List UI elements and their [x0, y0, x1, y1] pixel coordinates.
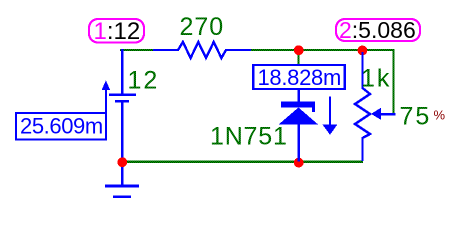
wire node1 stub to ammeter box — [297, 50, 299, 65]
node label box 1 — [89, 18, 144, 45]
node dot top left junction — [294, 45, 304, 55]
battery current arrow — [102, 80, 110, 113]
potentiometer wiper arrow — [371, 108, 396, 120]
svg-text:18.828m: 18.828m — [258, 65, 342, 90]
wire top rail mid (resistor to pot corner) — [251, 49, 395, 51]
zener diode D1 — [279, 89, 319, 162]
node label box 2 — [336, 17, 420, 43]
node dot bottom mid junction — [294, 158, 304, 168]
svg-text:2:5.086: 2:5.086 — [339, 17, 416, 43]
ground — [105, 163, 139, 198]
ammeter box battery 25.609m — [16, 113, 106, 140]
svg-text:270: 270 — [180, 13, 225, 41]
wire top rail left (node 1 to resistor) — [120, 49, 154, 51]
potentiometer P1 body — [355, 52, 370, 161]
svg-text:%: % — [434, 108, 446, 123]
node dot top right junction — [358, 46, 368, 56]
zener current arrow — [323, 96, 338, 135]
svg-text:1N751: 1N751 — [210, 123, 288, 151]
node dot bottom left junction — [117, 157, 127, 167]
svg-text:12: 12 — [128, 67, 160, 95]
resistor R1 270 — [153, 42, 251, 58]
svg-text:1k: 1k — [361, 65, 391, 93]
svg-text:75: 75 — [400, 103, 432, 131]
wire bottom rail — [121, 161, 363, 163]
svg-text:25.609m: 25.609m — [20, 114, 103, 139]
battery V1 — [109, 49, 136, 163]
ammeter box zener 18.828m — [253, 65, 345, 90]
svg-text:1:12: 1:12 — [94, 18, 141, 45]
wire wiper feed vertical — [392, 49, 394, 113]
